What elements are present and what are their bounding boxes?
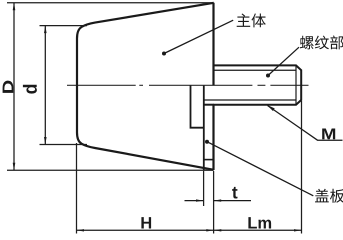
dimension Lm line [214,229,302,231]
washer (section, lower half) [191,85,204,127]
d bottom extension line [40,144,88,146]
arrow H left [77,229,84,231]
arrow Lm right [294,229,301,231]
H left extension line [76,143,78,234]
stud chamfer line [295,65,297,104]
arrow Lm left [214,229,221,231]
H/Lm shared extension line [213,171,215,234]
D bottom extension line [7,169,213,171]
body (main trapezoid outline) [77,3,214,170]
dimension D line [13,3,15,171]
dimension H line [77,229,214,231]
stud bottom line in section [204,104,214,106]
d top extension line [40,25,88,27]
label Lm [248,217,271,228]
arrow d top [44,26,47,33]
label M [322,129,335,140]
thread minor line top [214,69,297,71]
arrow t right (pointing left) [214,199,221,201]
leader 盖板 [205,140,209,144]
body right face (lower) [212,105,214,171]
label 主体 [237,14,266,28]
dimension d line [44,26,46,145]
t left extension line [203,171,205,206]
label 盖板 [315,189,343,203]
D top extension line [7,2,212,4]
threaded stud outline [214,65,302,104]
leader 螺纹部 [266,74,270,78]
body right face (upper) [212,3,214,86]
dimension t line right part [214,200,251,202]
centerline [67,84,309,86]
cover plate left face (section) [203,86,205,171]
thread minor line bottom [204,99,296,101]
dimension t line left part [185,200,204,202]
arrow t left (pointing right) [196,199,203,201]
label H [141,217,151,228]
arrow D top [13,3,16,11]
label d [23,85,37,94]
cover plate inner bottom line [204,159,214,161]
Lm right extension line [301,101,303,234]
label 螺纹部 [300,36,343,50]
leader M with arrow [268,106,343,141]
label D [3,81,14,93]
arrow H right [206,229,213,231]
arrow D bottom [13,163,16,171]
arrow d bottom [44,137,47,145]
label t [232,187,237,199]
leader 主体 [162,52,166,56]
